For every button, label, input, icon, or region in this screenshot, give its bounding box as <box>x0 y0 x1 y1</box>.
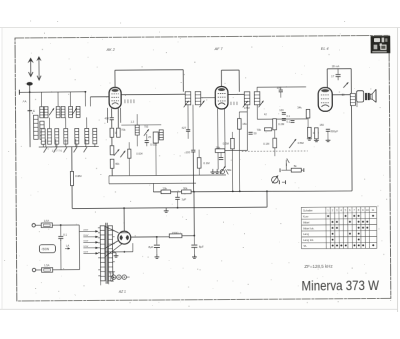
junction C4 <box>266 190 268 192</box>
coil L1 antenna <box>34 115 39 139</box>
coil oscillator <box>135 125 139 135</box>
wire filter out <box>182 235 194 237</box>
wire AF7 plate <box>228 93 244 95</box>
wire to E <box>29 92 31 110</box>
coil bank row2 #4 <box>64 129 68 145</box>
wire <box>155 143 157 175</box>
wire loop down <box>238 70 240 92</box>
wire <box>36 269 42 271</box>
wire secondary tap 1 <box>105 226 119 233</box>
fuse F2 <box>42 268 53 273</box>
junction C2 <box>232 190 234 192</box>
junction E1 <box>156 236 158 238</box>
svg-text:0.1: 0.1 <box>286 119 290 123</box>
wire <box>128 142 130 149</box>
wire detector link <box>225 149 248 151</box>
trimmer cap osc <box>144 129 149 136</box>
dial lamps 6.3V <box>111 275 126 280</box>
wire row1 stub <box>41 92 43 107</box>
trimmer IF2b <box>259 101 264 108</box>
svg-text:34k: 34k <box>297 106 302 110</box>
wire AF grid line <box>257 118 307 120</box>
antenna coil blob <box>27 82 33 86</box>
svg-text:AK 2: AK 2 <box>106 48 116 52</box>
wire <box>280 87 282 90</box>
wire grid drop <box>89 97 91 106</box>
wire lamp tap <box>112 272 115 275</box>
wire <box>157 236 169 238</box>
svg-text:50k: 50k <box>227 168 232 172</box>
wire <box>280 92 282 98</box>
resistor 150 cathode <box>315 128 319 139</box>
ground 8uF b <box>192 254 197 258</box>
wire 0.6M down <box>71 186 73 209</box>
trimmer IF1b <box>199 101 204 108</box>
wire <box>128 158 130 175</box>
capacitor 8uF b <box>191 245 197 247</box>
output transformer body <box>357 91 364 102</box>
wire winding tail b <box>108 281 110 284</box>
wire primary link <box>78 225 80 270</box>
svg-text:17: 17 <box>331 74 335 78</box>
coil bank row2 #5 <box>75 128 79 144</box>
svg-text:Minerva 373 W: Minerva 373 W <box>301 277 379 294</box>
voltage tap 220V <box>83 236 98 239</box>
coil bank row2 #3 <box>55 129 59 145</box>
wire AZ1 output <box>131 236 157 238</box>
wire B+ vertical upper <box>192 152 194 192</box>
svg-text:125V: 125V <box>83 246 88 248</box>
tube AK2 (octode) <box>109 87 121 108</box>
IF transformer 2 secondary coil <box>254 92 260 105</box>
switch slash <box>226 169 229 174</box>
wire E down <box>29 111 31 147</box>
svg-text:427: 427 <box>182 126 187 130</box>
coil bank row2 #2 <box>48 129 52 145</box>
line D (ground bus) <box>72 207 267 208</box>
capacitor 50 <box>248 132 252 134</box>
wire switch to 0.6M <box>71 147 73 171</box>
heater winding links <box>111 272 114 282</box>
coil bank row2 #7 <box>93 128 97 144</box>
coil bank row2 #6 <box>85 128 89 144</box>
primary tap stubs <box>98 228 101 276</box>
switch contact S5 <box>84 139 87 152</box>
wire 0.3M down to C <box>231 149 233 191</box>
resistor 0.6M <box>70 171 73 185</box>
svg-text:28 mA: 28 mA <box>332 64 340 68</box>
capacitor 1uF <box>175 197 180 199</box>
IF transformer 1 secondary coil <box>195 92 201 105</box>
tube AF7 (pentode) <box>215 87 228 109</box>
wire row2 to bus <box>56 144 58 147</box>
junction D2 <box>177 207 179 209</box>
IF transformer 2 primary coil <box>244 92 250 105</box>
resistor 0.2M <box>273 119 277 130</box>
svg-text:0.1M: 0.1M <box>263 142 270 146</box>
wire <box>60 238 62 269</box>
wire IF2 down2 <box>256 105 258 119</box>
svg-text:0.2M: 0.2M <box>278 122 285 126</box>
wire OT stub <box>356 102 358 107</box>
wire AK2 top cap up <box>114 70 116 87</box>
capacitor osc C1 <box>110 118 114 120</box>
coil L2 <box>40 121 44 139</box>
svg-text:100: 100 <box>279 108 284 112</box>
wire row2 to bus <box>76 144 78 147</box>
svg-text:0.5M: 0.5M <box>244 107 250 110</box>
wire <box>198 168 200 175</box>
resistor 5k <box>291 168 301 172</box>
wire mains cap <box>60 225 62 236</box>
potentiometer 50k arrow <box>220 166 226 174</box>
svg-text:0.1: 0.1 <box>63 233 67 237</box>
svg-text:Lang lok.: Lang lok. <box>303 238 314 242</box>
wire <box>238 112 240 119</box>
svg-text:1µF: 1µF <box>182 197 187 201</box>
resistor 0.1M b <box>273 138 277 148</box>
capacitor 100 (AVC) <box>191 150 195 152</box>
wire row1 stub <box>57 92 59 107</box>
resistor 300b <box>110 146 114 155</box>
wire antenna bus <box>30 91 86 93</box>
capacitor osc pad <box>145 141 149 143</box>
wire secondary tap 2 <box>105 240 119 248</box>
output transformer primary coil <box>350 93 355 105</box>
wire B to C link <box>152 183 154 191</box>
antenna arrow 2 <box>36 56 41 80</box>
wire row2 to bus <box>94 144 96 147</box>
coil bank row1 #4 <box>61 107 65 118</box>
resistor 40k <box>110 159 114 168</box>
line C (B+ rail) <box>153 191 352 193</box>
wire loop down to IF1 <box>182 70 184 92</box>
svg-text:700: 700 <box>144 126 149 129</box>
switch contact S1 <box>44 139 47 152</box>
power rating box ~50W <box>39 245 55 253</box>
capacitor 8uF a <box>154 245 160 247</box>
wire grid AK2 <box>90 96 109 98</box>
svg-text:1 9 7 7 6: 1 9 7 7 6 <box>52 148 63 152</box>
volume potentiometer 0.5M <box>289 139 296 148</box>
resistor 0.3M <box>231 138 235 149</box>
resistor 15k <box>237 119 241 130</box>
svg-text:EL 4: EL 4 <box>321 47 329 51</box>
svg-text:AF 7: AF 7 <box>214 47 224 51</box>
svg-text:15k: 15k <box>242 122 247 126</box>
resistor 0.1M <box>197 158 201 169</box>
wire C-D link <box>266 191 268 207</box>
wire <box>307 118 309 127</box>
svg-text:0.5M: 0.5M <box>298 141 305 145</box>
switch contact S4 <box>74 139 77 152</box>
wire <box>156 248 158 254</box>
svg-text:8µF: 8µF <box>148 245 153 249</box>
speaker cone <box>370 89 376 102</box>
ground 800uF <box>326 139 331 141</box>
mains terminal 1 <box>32 224 35 227</box>
wire EL top line <box>327 68 351 70</box>
capacitor 17 <box>336 69 341 81</box>
capacitor 0.1 <box>290 120 294 122</box>
coil bank row1 #1 <box>40 107 44 118</box>
connector ticks <box>125 99 134 103</box>
svg-text:150Ω: 150Ω <box>172 231 179 235</box>
resistor 30k <box>182 190 192 194</box>
svg-text:70k: 70k <box>257 128 262 132</box>
wire <box>187 131 189 138</box>
wire <box>193 247 195 253</box>
svg-text:0.6M: 0.6M <box>75 174 82 178</box>
svg-text:0.004: 0.004 <box>136 153 143 156</box>
IF transformer 1 primary coil <box>185 92 191 105</box>
wire cap1 drop <box>156 237 158 245</box>
coil bank row1 #3 <box>56 107 60 118</box>
wire lamps out <box>126 276 129 278</box>
oscillator shield box <box>107 108 121 123</box>
svg-text:70k: 70k <box>121 128 126 132</box>
resistor 35k <box>215 149 225 153</box>
wire OT return down <box>350 105 353 190</box>
resistor 20k <box>161 190 171 194</box>
svg-text:50: 50 <box>254 132 258 136</box>
svg-text:Mittel: Mittel <box>303 220 310 224</box>
svg-text:1,5A: 1,5A <box>44 219 50 223</box>
mains terminal 2 <box>32 268 35 271</box>
capacitor 100 det <box>279 90 283 92</box>
phono terminals <box>279 180 285 184</box>
wire EL plate to OT <box>332 94 350 96</box>
wire <box>274 148 276 156</box>
svg-text:150V: 150V <box>83 240 88 242</box>
svg-text:ZF=128,5 kHz: ZF=128,5 kHz <box>304 264 333 269</box>
wire top loop AK2-IF1 <box>115 69 183 71</box>
coil bank row1 #6 <box>76 106 80 117</box>
ground secondary CT <box>114 253 119 257</box>
AVC dashed line <box>242 150 308 152</box>
wire <box>111 168 113 175</box>
svg-text:40k: 40k <box>115 162 120 166</box>
power transformer core <box>106 223 108 284</box>
wire AK2 plate to IF1 <box>121 93 185 95</box>
line A (osc bottom rail) <box>109 174 226 177</box>
wire <box>111 137 113 146</box>
wire <box>136 135 138 146</box>
secondary filament line <box>105 251 133 253</box>
junction filament <box>124 251 126 253</box>
resistor 70k (osc) <box>117 128 121 137</box>
wire row2 to bus <box>42 144 44 147</box>
wire row interconnect <box>65 118 67 129</box>
svg-text:240V: 240V <box>83 229 88 231</box>
secondary tap stubs <box>112 231 114 278</box>
junction D1 <box>123 207 125 209</box>
wire tap feed <box>79 230 83 232</box>
wire AF7 grid from IF1 <box>201 97 216 99</box>
table dots <box>327 215 374 247</box>
wire row interconnect <box>86 117 88 128</box>
junction mains <box>60 224 62 226</box>
coil bank row1 #5 <box>69 107 73 118</box>
capacitor 0.002 block <box>153 132 158 143</box>
capacitor det <box>219 157 224 159</box>
wire IF2 top tap <box>256 87 258 91</box>
wire <box>327 131 329 139</box>
wire B+ vertical lower <box>193 192 195 236</box>
svg-text:AZ 1: AZ 1 <box>118 290 126 294</box>
switch table grid <box>301 207 376 249</box>
svg-text:Kurz: Kurz <box>303 214 309 218</box>
svg-text:↗A: ↗A <box>22 99 27 103</box>
wire row1 stub <box>69 92 71 107</box>
wire <box>136 114 138 125</box>
ground 0.1M <box>307 138 312 141</box>
svg-text:E: E <box>33 109 35 113</box>
coil padder <box>159 130 163 140</box>
svg-text:1,5A: 1,5A <box>44 263 50 267</box>
fuse F1 <box>41 223 52 228</box>
junction C3 <box>239 190 241 192</box>
wire AF7 top cap up <box>220 70 222 86</box>
ground 150 cathode <box>314 139 319 141</box>
wire IF1 secondary down <box>192 105 194 150</box>
svg-text:30k: 30k <box>183 186 188 190</box>
small terminal ticks mid <box>231 102 237 105</box>
speaker magnet block <box>365 93 370 100</box>
wire antenna down <box>29 85 31 92</box>
coil bank row2 #1 <box>41 129 45 145</box>
resistor 70k <box>265 128 272 131</box>
trimmer arrow EL <box>343 82 348 87</box>
wire 15k down to C <box>238 129 240 191</box>
terminal E (earth tick) <box>28 110 33 112</box>
wire <box>35 224 41 226</box>
arrow mains <box>65 247 70 249</box>
switch contact S3 <box>64 139 67 152</box>
wire IF1 down <box>187 105 189 130</box>
svg-text:800µF: 800µF <box>331 129 339 133</box>
tube EL4 (output pentode) <box>318 88 332 112</box>
tube AZ1 (rectifier) <box>118 231 131 244</box>
trimmer cap T2 <box>72 108 77 115</box>
svg-text:Schalter: Schalter <box>303 208 313 212</box>
power transformer primary winding <box>100 226 105 281</box>
wire <box>274 130 276 138</box>
voltage tap 240V <box>83 230 98 233</box>
switch contact S2 <box>54 139 57 152</box>
resistor 34k <box>306 109 310 118</box>
trimmer IF1a <box>184 101 189 108</box>
wire secondary tap 3 <box>105 244 122 257</box>
wire mains bottom <box>53 269 80 271</box>
wire AZ1 anode up <box>123 208 125 231</box>
svg-text:~50W: ~50W <box>41 247 49 251</box>
wire osc top rail <box>121 124 161 126</box>
wire B+ to OT <box>350 69 352 94</box>
wire <box>231 132 233 138</box>
wire mains top <box>52 224 79 226</box>
wire secondary CT <box>113 252 116 254</box>
coil bank row1 #2 <box>44 107 48 118</box>
resistor osc extra <box>128 149 131 158</box>
svg-text:LA: LA <box>66 244 69 248</box>
svg-text:150: 150 <box>319 123 324 127</box>
junction E2 <box>193 235 195 237</box>
wire AF7 cathode 2 <box>224 109 226 167</box>
junction bank <box>84 91 86 93</box>
resistor 300 (osc) <box>110 128 114 137</box>
wire <box>198 150 200 158</box>
band switch bus <box>39 146 99 148</box>
svg-text:TA: TA <box>303 244 306 248</box>
svg-text:10: 10 <box>366 208 370 212</box>
svg-text:35k: 35k <box>216 146 221 150</box>
trimmer cap T1 <box>49 108 54 115</box>
capacitor cathode bypass circle <box>220 170 224 174</box>
wire <box>146 143 148 147</box>
junction antenna bus <box>29 91 31 93</box>
ground AF7 screen <box>215 169 220 173</box>
antenna arrow 1 <box>28 57 34 76</box>
voltage tap 110V <box>83 252 98 255</box>
capacitor mains 0.1 <box>58 236 63 238</box>
power transformer secondary winding <box>108 226 113 281</box>
wire osc 1 <box>111 108 113 117</box>
wire <box>177 199 179 207</box>
svg-text:110V: 110V <box>83 251 88 253</box>
svg-text:8µF: 8µF <box>199 245 204 249</box>
switch arrow osc <box>114 149 120 156</box>
resistor 150ohm filter <box>169 234 182 238</box>
switch at volume pot <box>286 158 289 170</box>
svg-text:0.1M: 0.1M <box>203 161 210 165</box>
wire IF2 down to detector <box>246 105 248 151</box>
wire cap2 drop <box>193 236 195 245</box>
wire TA switch <box>285 160 287 166</box>
voltage tap 125V <box>83 247 98 250</box>
svg-text:0.002: 0.002 <box>150 143 157 147</box>
svg-text:100: 100 <box>186 150 191 154</box>
resistor 0.1M c <box>308 127 312 137</box>
wire AF7 cathode 1 <box>217 109 219 170</box>
capacitor 427 <box>186 130 190 132</box>
wire <box>220 152 222 157</box>
wire <box>176 192 178 197</box>
capacitor 800uF <box>326 129 330 131</box>
ground 8uF a <box>155 254 160 258</box>
wire row interconnect <box>48 118 50 129</box>
terminal A (aerial post) <box>19 90 29 95</box>
svg-text:Lang: Lang <box>303 232 310 236</box>
wire osc 2 <box>117 108 119 127</box>
svg-text:220V: 220V <box>83 235 88 237</box>
junction C1 <box>193 191 195 193</box>
capacitor 100 AF <box>282 113 286 115</box>
svg-text:6,3V: 6,3V <box>109 270 115 274</box>
wire AF7 top loop <box>221 69 239 71</box>
capacitor AF2 <box>282 119 286 121</box>
wire IF2 link <box>239 111 247 113</box>
terminal ticks 5k <box>280 168 304 172</box>
table header text <box>303 208 375 248</box>
switch arrow osc2 <box>120 151 125 158</box>
wire winding tail <box>100 281 102 285</box>
wire A-B link <box>108 176 110 184</box>
voltage tap 150V <box>83 241 98 244</box>
trimmer IF2a <box>243 101 248 108</box>
wire <box>111 120 113 128</box>
ground bus mid <box>164 208 169 212</box>
